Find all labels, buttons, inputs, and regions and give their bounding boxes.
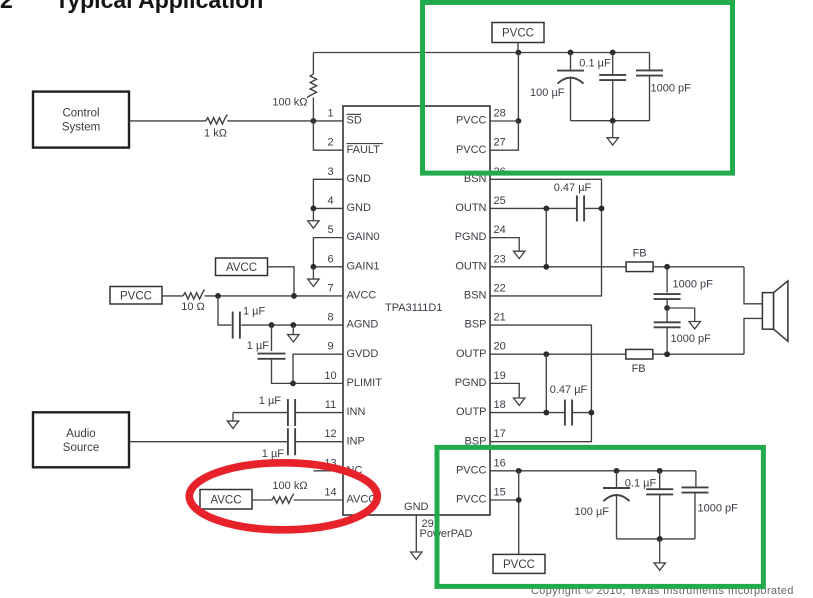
junction: rail / C2	[610, 50, 616, 56]
svg-text:6: 6	[327, 253, 333, 265]
wire: R1 to SD node	[227, 120, 343, 122]
wire: OUTP pin 20 to FB2	[490, 353, 626, 355]
wire: C4 to AGND pin 8	[241, 324, 343, 326]
ground: INN input return	[232, 413, 234, 422]
wire: OUTN pin 25 to C8	[490, 207, 577, 209]
junction: gnd rail center	[610, 118, 616, 124]
capacitor C14 1000 pF	[682, 486, 709, 488]
capacitor C4 1 uF (AVCC decoupling)	[232, 312, 234, 339]
svg-text:OUTP: OUTP	[456, 348, 487, 360]
svg-text:10: 10	[324, 370, 336, 382]
junction: pin 16 node	[516, 468, 522, 474]
svg-text:PVCC: PVCC	[456, 144, 487, 156]
wire: rail to C13 top	[659, 471, 661, 489]
svg-text:PVCC: PVCC	[120, 290, 152, 302]
junction: AGND ground node	[290, 322, 296, 328]
junction: GVDD-PLIMIT tie	[290, 380, 296, 386]
wire: GVDD pin 9 to PLIMIT tie	[293, 354, 343, 383]
ground: top decoupling group	[612, 121, 614, 138]
power flag PVCC (left)	[110, 287, 162, 305]
junction: filter node P	[664, 351, 670, 357]
svg-text:0.47 µF: 0.47 µF	[554, 182, 592, 194]
wire: C9 to BSP rail	[572, 412, 591, 414]
junction: rail / C12	[614, 468, 620, 474]
svg-text:10 Ω: 10 Ω	[181, 301, 205, 313]
svg-text:9: 9	[327, 341, 333, 353]
wire: pin 28 node down to pin 27	[490, 121, 518, 150]
wire: AGND branch down to C5	[271, 325, 273, 351]
svg-text:2: 2	[0, 0, 13, 13]
svg-text:PVCC: PVCC	[503, 559, 535, 571]
wire: FAULT pin 2 to SD node	[313, 121, 343, 150]
wire: GND pin 3 to pin 4	[313, 179, 343, 208]
svg-text:21: 21	[494, 312, 506, 324]
junction: rail / PVCC flag	[516, 50, 522, 56]
op-amp U1 TPA3111D1 class-D amplifier body	[343, 106, 490, 515]
svg-text:20: 20	[494, 341, 506, 353]
svg-text:Audio: Audio	[66, 428, 95, 440]
svg-text:Typical Application: Typical Application	[55, 0, 263, 13]
power flag AVCC (mid)	[216, 258, 268, 276]
wire: pin 16 node down to pin 15 and flag	[490, 499, 519, 501]
junction: AVCC filter node	[215, 293, 221, 299]
wire: AVCC flag to R4	[252, 499, 272, 501]
capacitor C2 0.1 uF	[599, 74, 626, 76]
svg-text:AVCC: AVCC	[226, 262, 257, 274]
svg-text:PowerPAD: PowerPAD	[420, 528, 473, 540]
svg-text:0.1 µF: 0.1 µF	[579, 58, 611, 70]
junction: filter caps midpoint	[664, 305, 670, 311]
wire: decoupling ground rail (bottom group)	[617, 538, 696, 540]
ground: PGND pin 24	[518, 250, 520, 252]
wire: BSN pin 26 to bootstrap rail	[490, 179, 602, 296]
capacitor C10 1000 pF (N to gnd)	[654, 293, 681, 295]
wire: C7 to INP pin 12	[295, 441, 343, 443]
wire: PVCC pin 16 rail	[490, 470, 696, 472]
wire: node N to C10 top	[666, 267, 668, 293]
svg-text:GVDD: GVDD	[347, 348, 379, 360]
svg-text:OUTP: OUTP	[456, 406, 487, 418]
svg-text:FAULT: FAULT	[347, 144, 381, 156]
junction: rail / C1	[568, 50, 574, 56]
ground: PowerPAD	[415, 551, 417, 553]
power flag PVCC (top)	[492, 23, 544, 43]
capacitor C3 1000 pF	[636, 69, 663, 71]
svg-text:1000 pF: 1000 pF	[673, 279, 714, 291]
wire: rail to C2 top	[612, 53, 614, 75]
power flag AVCC (bottom)	[200, 490, 252, 510]
svg-text:8: 8	[327, 312, 333, 324]
svg-text:GAIN1: GAIN1	[347, 260, 380, 272]
svg-text:4: 4	[327, 195, 333, 207]
svg-text:18: 18	[494, 399, 506, 411]
wire: midpoint to ground arm	[667, 307, 695, 309]
svg-text:OUTN: OUTN	[455, 260, 486, 272]
junction: bottom gnd rail	[657, 536, 663, 542]
svg-text:INP: INP	[347, 435, 365, 447]
power flag PVCC (bottom)	[493, 554, 545, 573]
svg-text:BSN: BSN	[464, 290, 487, 302]
wire: C14 bottom to gnd rail	[694, 493, 696, 539]
svg-text:AGND: AGND	[347, 319, 379, 331]
wire: OUTN 25 node down to OUTN 23	[545, 208, 547, 266]
wire: OUTN pin 23 to FB1	[490, 266, 626, 268]
block: Audio Source	[33, 412, 129, 467]
svg-text:PLIMIT: PLIMIT	[347, 377, 383, 389]
block: Control System	[33, 92, 129, 148]
svg-text:FB: FB	[632, 363, 646, 375]
svg-text:17: 17	[494, 428, 506, 440]
capacitor C12 100 uF (polarized)	[603, 487, 630, 489]
svg-text:PVCC: PVCC	[502, 28, 534, 40]
wire: decoupling ground rail (top group)	[571, 120, 650, 122]
svg-text:BSP: BSP	[464, 319, 486, 331]
junction: AGND / C5 branch	[269, 322, 275, 328]
svg-text:23: 23	[494, 253, 506, 265]
svg-text:11: 11	[325, 399, 336, 411]
ground: bottom decoupling group	[659, 539, 661, 563]
svg-text:1 µF: 1 µF	[259, 395, 282, 407]
resistor R3 10 ohm	[183, 289, 205, 299]
svg-text:100 kΩ: 100 kΩ	[272, 97, 307, 109]
junction: OUTP pin 18 node	[543, 410, 549, 416]
svg-text:28: 28	[494, 108, 506, 120]
wire: PGND pin 24 to ground	[490, 238, 519, 252]
capacitor C9 0.47 uF (bootstrap P)	[564, 400, 566, 426]
svg-text:1 µF: 1 µF	[247, 340, 270, 352]
svg-text:FB: FB	[633, 248, 647, 260]
svg-text:100 µF: 100 µF	[575, 506, 610, 518]
svg-text:1 µF: 1 µF	[243, 306, 266, 318]
svg-text:1000 pF: 1000 pF	[671, 333, 712, 345]
svg-text:1: 1	[327, 108, 333, 120]
wire: INN cap to ground branch	[233, 412, 288, 414]
junction: filter node N	[664, 264, 670, 270]
capacitor C5 1 uF (GVDD)	[258, 353, 286, 355]
speaker LS1	[762, 293, 773, 330]
svg-text:24: 24	[494, 224, 506, 236]
wire: C1 bottom to gnd rail	[570, 78, 572, 121]
capacitor C8 0.47 uF (bootstrap N)	[576, 195, 578, 221]
wire: midpoint to C11	[666, 308, 668, 323]
inductor FB2 ferrite bead	[626, 349, 653, 359]
capacitor C1 100 uF (polarized)	[557, 70, 584, 72]
svg-text:14: 14	[324, 486, 336, 498]
ground: output filter	[694, 308, 696, 322]
svg-text:22: 22	[494, 282, 506, 294]
wire: C11 to node P	[666, 327, 668, 354]
resistor R2 100 k pull-up (vertical)	[307, 74, 317, 98]
svg-text:SD: SD	[347, 115, 362, 127]
junction: C8 / BSN rail	[599, 206, 605, 212]
wire: OUTP 20 node down to OUTP 18	[545, 354, 547, 412]
svg-text:100 µF: 100 µF	[530, 87, 565, 99]
junction: rail / C13	[657, 468, 663, 474]
wire: C10 to midpoint	[666, 299, 668, 308]
capacitor C7 1 uF (INP input)	[287, 428, 289, 455]
svg-text:PGND: PGND	[455, 377, 487, 389]
wire: PGND pin 19 to ground	[490, 383, 519, 398]
svg-text:Source: Source	[63, 442, 99, 454]
wire: rail to C1 top	[570, 53, 572, 71]
capacitor C11 1000 pF (P to gnd)	[654, 321, 681, 323]
ground: PGND pin 19	[518, 397, 520, 399]
wire: PowerPAD stub	[415, 515, 417, 552]
svg-text:1 kΩ: 1 kΩ	[204, 128, 227, 140]
ground: GAIN pins 5-6	[312, 267, 314, 279]
wire: C6 to INN pin 11	[295, 412, 343, 414]
wire: top PVCC rail	[313, 52, 649, 54]
wire: OUTP pin 18 to C9	[490, 412, 565, 414]
junction: OUTN pin 25 node	[543, 206, 549, 212]
wire: FB1 to speaker node N	[653, 266, 744, 268]
wire: FB2 to speaker node P	[653, 353, 744, 355]
svg-text:2: 2	[327, 137, 333, 149]
wire: SD node up to pull-up resistor	[312, 98, 314, 121]
svg-text:5: 5	[327, 224, 333, 236]
junction: pin 15 node	[516, 497, 522, 503]
wire: C3 bottom to gnd rail	[649, 76, 651, 121]
wire: AVCC flag to pin 7 wire	[268, 267, 295, 296]
svg-text:12: 12	[324, 428, 336, 440]
annotation: green highlight box (bottom PVCC decoupling)	[437, 447, 763, 586]
wire: BSP pin 21 to bootstrap rail	[490, 325, 591, 442]
wire: C12 bottom to gnd rail	[616, 495, 618, 539]
svg-text:System: System	[62, 122, 100, 134]
ground: AGND pin 8	[292, 325, 294, 335]
wire: rail to C12 top	[616, 471, 618, 488]
svg-text:Control: Control	[62, 108, 99, 120]
annotation: red ellipse (AVCC pull-up highlight)	[189, 463, 377, 530]
wire: rail corner to C3 top	[649, 53, 651, 71]
svg-text:1 µF: 1 µF	[262, 448, 285, 460]
wire: rail corner to C14	[695, 471, 697, 488]
svg-text:25: 25	[494, 195, 506, 207]
wire: pull-up to PVCC rail	[312, 53, 314, 75]
capacitor C13 0.1 uF	[646, 488, 673, 490]
svg-text:15: 15	[494, 486, 506, 498]
annotation: green highlight box (top PVCC decoupling)	[423, 3, 733, 174]
svg-text:PVCC: PVCC	[456, 494, 487, 506]
wire: rail down to pin 28	[517, 53, 519, 122]
junction: OUTN pin 23 node	[543, 264, 549, 270]
svg-text:PGND: PGND	[455, 231, 487, 243]
svg-text:INN: INN	[347, 406, 366, 418]
svg-text:16: 16	[494, 457, 506, 469]
wire: R4 to AVCC pin 14	[294, 499, 343, 501]
junction: GAIN pins node	[311, 264, 317, 270]
junction: SD node	[311, 118, 317, 124]
wire: C5 bottom to PLIMIT line	[272, 359, 344, 384]
svg-text:1000 pF: 1000 pF	[651, 83, 692, 95]
wire: node N to speaker +	[744, 267, 762, 304]
wire: C8 to BSN rail	[584, 207, 601, 209]
svg-text:PVCC: PVCC	[456, 115, 487, 127]
inductor FB1 ferrite bead	[626, 262, 653, 272]
junction: GND pins node	[311, 206, 317, 212]
svg-text:AVCC: AVCC	[347, 290, 377, 302]
svg-text:0.1 µF: 0.1 µF	[625, 478, 657, 490]
svg-text:100 kΩ: 100 kΩ	[272, 480, 307, 492]
wire: GAIN0 pin 5 to GAIN1 pin 6	[313, 238, 343, 267]
svg-text:7: 7	[327, 282, 333, 294]
svg-text:GND: GND	[347, 173, 372, 185]
resistor R4 100 k (AVCC pin 14)	[272, 494, 294, 504]
svg-text:3: 3	[327, 166, 333, 178]
wire: R3 to AVCC node	[205, 295, 344, 297]
svg-text:PVCC: PVCC	[456, 464, 487, 476]
wire: Control System to R1	[129, 120, 206, 122]
svg-text:AVCC: AVCC	[210, 494, 241, 506]
junction: AVCC flag node	[291, 293, 297, 299]
wire: C2 bottom to gnd rail	[612, 80, 614, 121]
svg-text:TPA3111D1: TPA3111D1	[385, 302, 442, 314]
svg-text:27: 27	[494, 137, 506, 149]
wire: AVCC node down to C4	[218, 296, 231, 325]
svg-text:0.47 µF: 0.47 µF	[550, 384, 588, 396]
wire: NC pin 13 stub	[314, 470, 344, 472]
wire: pin 28 stub	[490, 120, 518, 122]
wire: C13 bottom to gnd rail	[659, 494, 661, 539]
capacitor C6 1 uF (INN input)	[287, 399, 289, 426]
junction: pin 28 node	[516, 118, 522, 124]
junction: OUTP pin 20 node	[543, 351, 549, 357]
svg-text:OUTN: OUTN	[455, 202, 486, 214]
svg-text:GAIN0: GAIN0	[347, 231, 380, 243]
ground: GND pins 3-4	[312, 208, 314, 220]
svg-text:GND: GND	[404, 501, 429, 513]
resistor R1 1 k (series on SD)	[206, 115, 228, 125]
wire: PVCC flag stem	[517, 43, 519, 53]
wire: node P to speaker -	[744, 318, 762, 354]
svg-text:GND: GND	[347, 202, 372, 214]
svg-text:19: 19	[494, 370, 506, 382]
svg-text:1000 pF: 1000 pF	[698, 503, 739, 515]
wire: PVCC flag to R3	[162, 295, 183, 297]
wire: Audio Source to C7	[129, 441, 288, 443]
junction: C9 / BSP rail	[589, 410, 595, 416]
